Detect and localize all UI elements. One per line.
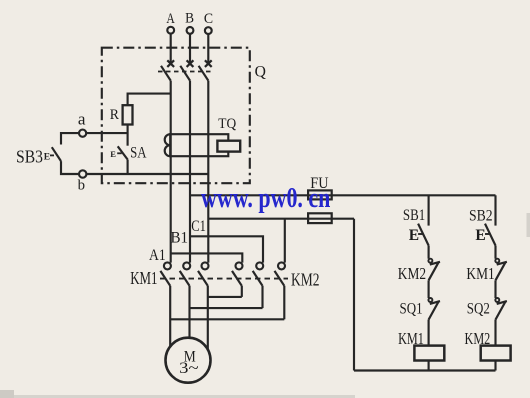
- wire KM2 output 3: [283, 286, 285, 320]
- wire branch B1: [190, 236, 263, 262]
- wire control return vertical: [353, 219, 355, 371]
- wire crossover 1: [208, 296, 242, 298]
- svg-text:SB2: SB2: [469, 207, 493, 224]
- svg-text:SQ2: SQ2: [467, 301, 490, 318]
- terminal A: [167, 27, 174, 64]
- svg-text:KM1: KM1: [398, 329, 424, 348]
- wire SA to b-line: [127, 160, 129, 175]
- fuse FU lower: [308, 213, 332, 223]
- switch Q pole 3 X contact: [205, 60, 212, 67]
- svg-text:B1: B1: [171, 229, 189, 246]
- wire KM2 coil to bottom rail: [494, 361, 496, 371]
- wire KM2 aux to SQ1: [428, 280, 430, 298]
- contact KM2 aux (NO): [428, 259, 440, 281]
- svg-text:KM2: KM2: [398, 264, 426, 283]
- svg-text:TQ: TQ: [218, 116, 236, 132]
- svg-text:R: R: [110, 107, 120, 123]
- switch SA actuator dash: [117, 152, 122, 154]
- switch Q linkage (dashed): [158, 71, 214, 73]
- svg-text:C1: C1: [191, 218, 206, 235]
- control branch SB1 vertical top: [428, 195, 430, 225]
- switch Q pole 1 X contact: [167, 60, 174, 67]
- wire R to SA: [127, 125, 129, 146]
- wire KM1 coil to bottom rail: [428, 361, 430, 371]
- motor M circle: [166, 338, 211, 383]
- switch Q pole 2 blade: [180, 66, 190, 81]
- electromagnet TQ armature: [217, 141, 240, 152]
- svg-text:www. pw0. cn: www. pw0. cn: [201, 182, 330, 214]
- wire KM1 output 1: [169, 286, 171, 348]
- svg-text:SB3: SB3: [16, 146, 43, 166]
- wire branch C1: [284, 219, 286, 263]
- contactor KM1 main contact 3: [198, 262, 209, 285]
- pushbutton SB1 actuator dash: [418, 233, 423, 235]
- contactor KM1 main contact 2: [180, 262, 191, 285]
- wire SQ1 to KM1 coil: [428, 320, 430, 346]
- svg-text:A: A: [166, 11, 175, 27]
- switch Q pole 3 blade: [199, 66, 209, 81]
- svg-text:KM2: KM2: [291, 269, 320, 289]
- wire SQ2 to KM2 coil: [494, 320, 496, 346]
- pushbutton SB1 blade: [418, 224, 429, 246]
- wire a to SB3: [61, 133, 79, 144]
- contact KM1 aux (NO): [495, 259, 507, 281]
- svg-text:KM1: KM1: [466, 264, 494, 283]
- pushbutton SB2 actuator dash: [485, 233, 490, 235]
- switch SA blade: [118, 146, 128, 159]
- svg-text:A1: A1: [149, 247, 166, 264]
- electromagnet TQ coil frame: [170, 134, 228, 156]
- coil KM1: [414, 346, 444, 361]
- control branch SB2 vertical top: [494, 195, 496, 225]
- svg-text:E: E: [44, 152, 50, 162]
- contactor KM2 main contact 2: [253, 262, 264, 285]
- svg-text:E: E: [110, 149, 116, 159]
- terminal B: [187, 27, 194, 64]
- svg-text:C: C: [204, 11, 213, 27]
- contact SQ2 limit switch: [495, 298, 507, 320]
- svg-text:a: a: [78, 110, 86, 129]
- wire KM1 output 3: [207, 286, 209, 352]
- svg-text:SQ1: SQ1: [400, 301, 423, 318]
- scan artifact bottom edge: [0, 395, 355, 398]
- fuse FU upper: [308, 190, 332, 199]
- scan artifact right edge: [527, 213, 530, 237]
- wire fuse line 2 (phase C to control return): [208, 218, 354, 220]
- wire phase B vertical: [189, 81, 191, 263]
- terminal b: [79, 170, 86, 177]
- wire crossover 3: [170, 318, 284, 320]
- contactor KM1 main contact 1: [160, 262, 171, 285]
- switch Q enclosure (dash-dot box): [102, 48, 250, 184]
- contactor KM2 main contact 3: [275, 262, 286, 285]
- wire a to R/SA junction: [86, 132, 127, 134]
- svg-text:E: E: [409, 227, 419, 244]
- svg-text:B: B: [185, 11, 194, 27]
- wire phase A vertical: [170, 81, 172, 263]
- terminal C: [205, 27, 212, 63]
- wire control bottom rail: [354, 369, 496, 371]
- wire KM1 output 2: [188, 286, 190, 339]
- scan artifact bottom-left corner: [0, 390, 14, 398]
- switch Q pole 2 X contact: [187, 60, 194, 67]
- contact SQ1 limit switch: [428, 298, 440, 320]
- terminal a: [79, 130, 86, 137]
- wire b to phase C: [86, 173, 208, 175]
- coil KM2: [481, 346, 511, 361]
- svg-text:3~: 3~: [179, 360, 199, 377]
- pushbutton SB2 blade: [485, 224, 496, 246]
- svg-text:SB1: SB1: [403, 207, 425, 224]
- svg-text:b: b: [78, 177, 85, 193]
- wire KM1 aux to SQ2: [494, 280, 496, 298]
- wire R branch: [128, 94, 171, 106]
- switch Q pole 1 blade: [161, 66, 171, 81]
- pushbutton SB3 blade: [52, 147, 61, 161]
- wire crossover 2: [190, 307, 263, 309]
- svg-text:KM2: KM2: [465, 329, 491, 348]
- wire phase C vertical: [207, 81, 209, 263]
- contactor KM2 main contact 1: [232, 262, 243, 285]
- wire KM2 output 1: [241, 286, 243, 297]
- svg-text:KM1: KM1: [130, 268, 157, 288]
- pushbutton SB3 actuator dash: [50, 154, 54, 156]
- svg-text:SA: SA: [130, 144, 147, 161]
- svg-text:E: E: [475, 227, 485, 244]
- wire SB1 to KM2 aux: [428, 246, 430, 259]
- wire fuse line 1 (phase B to control rail): [190, 194, 496, 196]
- wire KM2 output 2: [261, 286, 263, 308]
- wire SB2 to KM1 aux: [494, 246, 496, 259]
- resistor R: [123, 105, 133, 124]
- wire branch A1: [171, 253, 243, 262]
- contactor interlock linkage (dashed): [160, 278, 288, 280]
- svg-text:Q: Q: [255, 64, 266, 81]
- electromagnet TQ left arcs: [165, 134, 170, 156]
- wire SB3 to b: [61, 161, 79, 174]
